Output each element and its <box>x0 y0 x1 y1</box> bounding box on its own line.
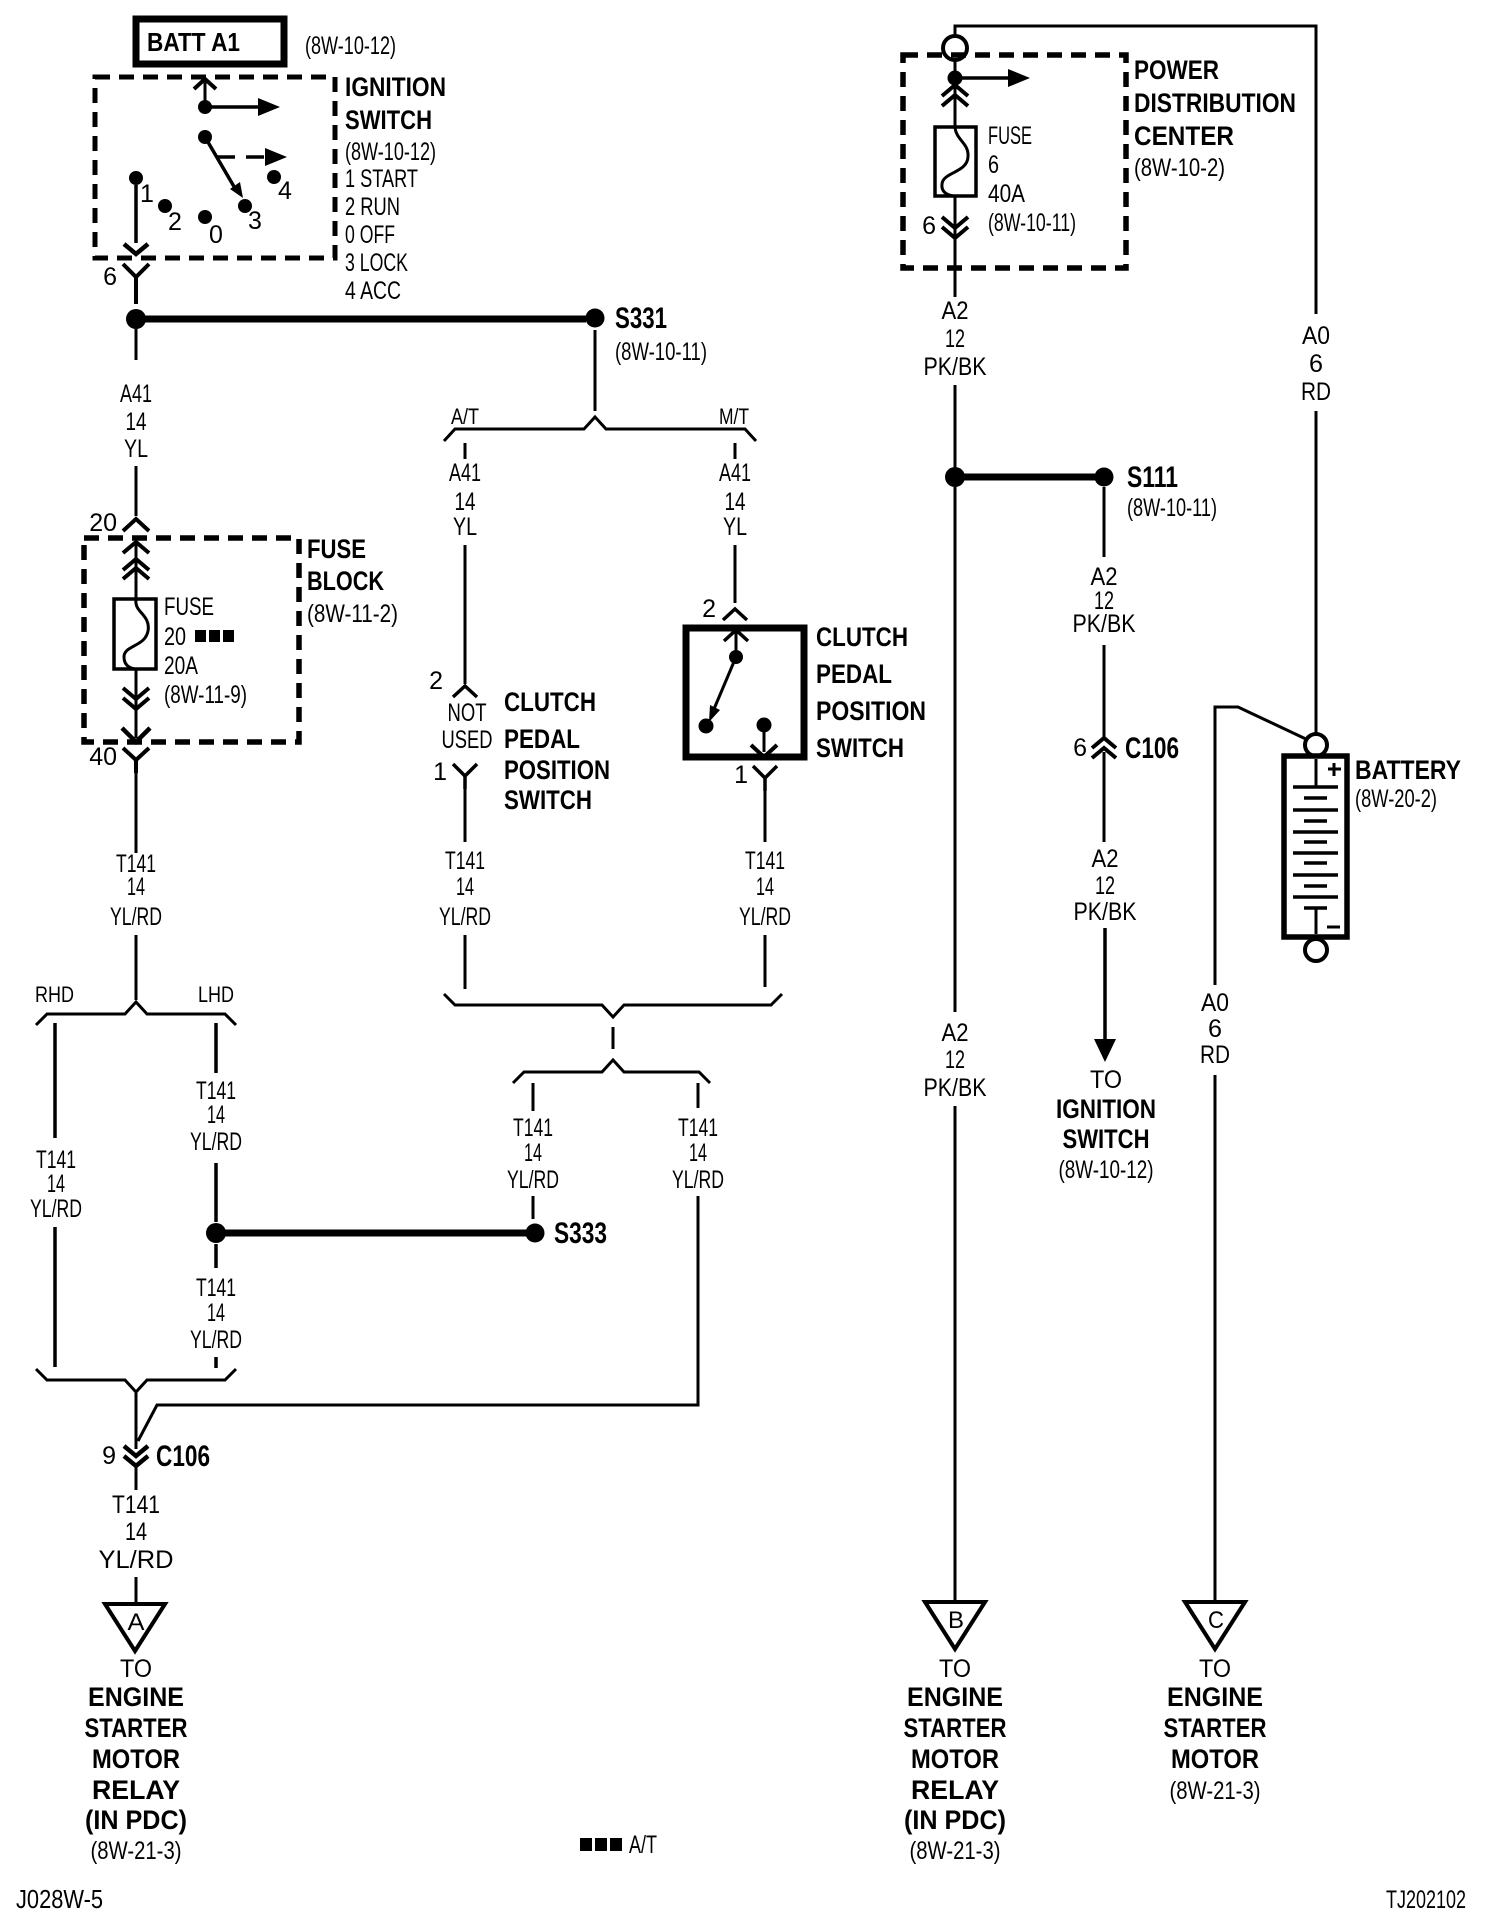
svg-text:0: 0 <box>209 221 223 249</box>
svg-text:14: 14 <box>524 1139 542 1167</box>
svg-text:PEDAL: PEDAL <box>816 659 892 689</box>
feeder wire from clutch switch branch into C106 <box>138 1196 698 1441</box>
off-page connector C <box>1185 1602 1245 1649</box>
ignition switch caption <box>345 72 446 305</box>
svg-text:(8W-21-3): (8W-21-3) <box>91 1837 182 1865</box>
svg-text:14: 14 <box>47 1170 65 1198</box>
svg-text:14: 14 <box>689 1139 707 1167</box>
svg-text:C106: C106 <box>1125 732 1179 765</box>
svg-text:BATT A1: BATT A1 <box>147 27 240 57</box>
svg-text:T141: T141 <box>513 1114 553 1142</box>
battery negative terminal <box>1305 939 1327 961</box>
ignition switch internal node (upper) <box>198 100 212 114</box>
svg-text:T141: T141 <box>112 1491 160 1519</box>
T141 pair split brace <box>513 1060 710 1083</box>
svg-text:A41: A41 <box>449 459 481 487</box>
svg-text:BLOCK: BLOCK <box>307 566 384 596</box>
ignition switch rotor contact arm (to position 3) <box>205 137 243 198</box>
svg-text:C: C <box>1208 1607 1224 1634</box>
svg-text:YL/RD: YL/RD <box>190 1128 242 1156</box>
wire T141 14 YL/RD (split to S333) <box>507 1083 559 1219</box>
wire T141 14 YL/RD M/T branch down <box>739 790 791 987</box>
splice S333 <box>526 1217 608 1250</box>
svg-text:A41: A41 <box>120 380 152 408</box>
svg-text:CLUTCH: CLUTCH <box>504 687 596 717</box>
svg-text:20A: 20A <box>164 652 198 680</box>
wire A41 14 YL M/T branch <box>719 443 751 603</box>
svg-text:(8W-10-12): (8W-10-12) <box>345 138 436 166</box>
svg-text:PEDAL: PEDAL <box>504 724 580 754</box>
svg-text:YL: YL <box>453 513 477 541</box>
svg-text:(8W-10-2): (8W-10-2) <box>1134 154 1225 182</box>
ignition switch internal node (lower) <box>198 130 212 144</box>
svg-text:FUSE: FUSE <box>307 534 366 564</box>
svg-text:MOTOR: MOTOR <box>911 1744 999 1774</box>
svg-text:12: 12 <box>1095 872 1115 900</box>
svg-text:LHD: LHD <box>198 982 234 1007</box>
connector pin 2 (M/T clutch switch) <box>702 595 747 623</box>
svg-text:(8W-11-9): (8W-11-9) <box>164 681 247 709</box>
svg-text:POWER: POWER <box>1134 55 1219 85</box>
sheet number TJ202102 <box>1386 1886 1466 1914</box>
svg-text:6: 6 <box>103 263 117 291</box>
wire between clutch merge and T141 split <box>612 1027 615 1049</box>
connector pin 6 (ignition switch output) <box>103 263 149 304</box>
clutch switch movable contact arm (M/T) <box>699 657 737 734</box>
clutch branches merge brace <box>444 994 782 1017</box>
wire (junction to splice S111) <box>955 474 1096 481</box>
svg-text:STARTER: STARTER <box>904 1713 1007 1743</box>
svg-text:STARTER: STARTER <box>85 1713 188 1743</box>
svg-text:C106: C106 <box>156 1440 210 1473</box>
svg-text:YL/RD: YL/RD <box>99 1546 174 1574</box>
arrow to ignition switch <box>1094 928 1116 1062</box>
svg-text:YL/RD: YL/RD <box>110 903 162 931</box>
svg-text:MOTOR: MOTOR <box>1171 1744 1259 1774</box>
wire A0 6 RD (battery positive to connector C) <box>1200 707 1308 1602</box>
connector C106 pin 9 <box>102 1440 210 1473</box>
svg-text:M/T: M/T <box>719 404 749 429</box>
svg-text:CENTER: CENTER <box>1134 121 1234 151</box>
wire label A0 6 RD (feed to battery positive) <box>1301 322 1331 406</box>
wire junction (A2 feed) <box>945 467 965 487</box>
svg-text:J028W-5: J028W-5 <box>16 1884 103 1914</box>
svg-text:SWITCH: SWITCH <box>1063 1124 1150 1154</box>
svg-text:ENGINE: ENGINE <box>907 1682 1003 1712</box>
svg-text:MOTOR: MOTOR <box>92 1744 180 1774</box>
clutch pedal position switch (M/T) box <box>686 628 804 757</box>
svg-text:(8W-21-3): (8W-21-3) <box>1170 1777 1261 1805</box>
ignition switch dashed travel arrow <box>217 148 287 166</box>
svg-text:1: 1 <box>734 761 748 789</box>
svg-text:T141: T141 <box>445 847 485 875</box>
svg-text:2: 2 <box>168 208 182 236</box>
svg-text:STARTER: STARTER <box>1164 1713 1267 1743</box>
svg-text:BATTERY: BATTERY <box>1355 755 1461 785</box>
svg-text:YL/RD: YL/RD <box>672 1166 724 1194</box>
wire (junction to splice S331) <box>136 316 586 323</box>
wire T141 14 YL/RD LHD branch (upper) <box>190 1023 242 1222</box>
wire (LHD junction to splice S333) <box>216 1230 527 1237</box>
battery caption BATTERY (8W-20-2) <box>1355 755 1461 813</box>
wire A41 14 YL (ignition switch to fuse block) <box>120 329 152 516</box>
svg-text:TO: TO <box>120 1655 152 1683</box>
svg-text:14: 14 <box>125 1518 147 1546</box>
svg-text:ENGINE: ENGINE <box>1167 1682 1263 1712</box>
svg-text:(8W-10-11): (8W-10-11) <box>615 338 707 366</box>
svg-text:14: 14 <box>756 873 774 901</box>
fuse block input arrow and connector chevrons <box>123 542 149 600</box>
svg-text:POSITION: POSITION <box>504 755 610 785</box>
caption CLUTCH PEDAL POSITION SWITCH (M/T) <box>816 622 926 763</box>
caption TO IGNITION SWITCH (8W-10-12) <box>1056 1066 1156 1184</box>
svg-text:PK/BK: PK/BK <box>1074 898 1137 926</box>
svg-text:2: 2 <box>702 595 716 623</box>
svg-text:S111: S111 <box>1127 461 1178 494</box>
connector pin 40 (fuse block output) <box>89 743 149 773</box>
ignition switch contact 4 <box>267 170 292 205</box>
ignition switch contact 3 <box>238 199 262 235</box>
svg-text:A/T: A/T <box>629 1831 657 1859</box>
PDC internal junction and feed arrow <box>948 60 1031 127</box>
power distribution center dashed outline <box>903 55 1126 268</box>
splice S111 <box>1095 461 1218 522</box>
wire (S331 down to A/T-M/T split) <box>594 330 597 411</box>
svg-text:PK/BK: PK/BK <box>924 1074 987 1102</box>
svg-text:NOT: NOT <box>448 699 487 727</box>
A/T / M/T split brace <box>444 404 756 441</box>
svg-text:TO: TO <box>1199 1655 1231 1683</box>
svg-text:A2: A2 <box>942 297 969 325</box>
svg-text:(IN PDC): (IN PDC) <box>904 1805 1006 1835</box>
svg-text:14: 14 <box>127 873 145 901</box>
svg-text:POSITION: POSITION <box>816 696 926 726</box>
wire junction below ignition switch <box>126 309 146 329</box>
caption TO ENGINE STARTER MOTOR (8W-21-3) [C] <box>1164 1655 1267 1805</box>
svg-text:YL: YL <box>124 435 148 463</box>
svg-text:T141: T141 <box>678 1114 718 1142</box>
svg-text:4: 4 <box>278 177 292 205</box>
svg-text:4 ACC: 4 ACC <box>345 277 401 305</box>
svg-text:6: 6 <box>1208 1015 1222 1043</box>
svg-text:IGNITION: IGNITION <box>1056 1094 1156 1124</box>
ignition switch contact 1 <box>129 171 154 208</box>
svg-text:A0: A0 <box>1201 989 1229 1017</box>
svg-text:1 START: 1 START <box>345 165 418 193</box>
svg-text:PK/BK: PK/BK <box>924 353 987 381</box>
sheet number J028W-5 <box>16 1884 103 1914</box>
fuse block dashed outline <box>84 538 299 742</box>
svg-text:(8W-10-12): (8W-10-12) <box>305 32 396 60</box>
PDC connector chevrons (top of fuse feed) <box>942 85 968 106</box>
svg-text:SWITCH: SWITCH <box>345 105 432 135</box>
battery feed terminal box BATT A1 <box>136 19 284 64</box>
RHD/LHD split brace <box>35 982 236 1025</box>
reference label (8W-10-12) for BATT A1 <box>305 32 396 60</box>
svg-text:USED: USED <box>442 726 493 754</box>
RHD/LHD merge brace <box>36 1369 236 1449</box>
svg-text:A41: A41 <box>719 459 751 487</box>
svg-text:SWITCH: SWITCH <box>504 785 592 815</box>
svg-text:A/T: A/T <box>451 404 479 429</box>
svg-text:9: 9 <box>102 1442 116 1470</box>
svg-text:RD: RD <box>1200 1041 1230 1069</box>
svg-text:(8W-10-11): (8W-10-11) <box>1127 494 1217 522</box>
wire A41 14 YL A/T branch <box>449 443 481 684</box>
svg-text:FUSE: FUSE <box>988 122 1032 150</box>
clutch switch input arrow and contact (M/T) <box>724 630 748 664</box>
svg-text:12: 12 <box>945 1046 965 1074</box>
svg-text:3: 3 <box>248 207 262 235</box>
svg-text:(8W-20-2): (8W-20-2) <box>1355 785 1437 813</box>
svg-text:CLUTCH: CLUTCH <box>816 622 908 652</box>
fuse F20 (20A) symbol <box>114 599 156 669</box>
svg-text:(8W-10-12): (8W-10-12) <box>1059 1156 1154 1184</box>
svg-text:1: 1 <box>433 758 447 786</box>
svg-text:YL/RD: YL/RD <box>439 903 491 931</box>
ignition switch output arm from contact 1 <box>124 185 148 254</box>
legend marker A/T <box>580 1831 657 1859</box>
connector pin 1 (A/T clutch switch) <box>433 758 477 789</box>
svg-text:ENGINE: ENGINE <box>88 1682 184 1712</box>
svg-text:2 RUN: 2 RUN <box>345 193 400 221</box>
fuse value label FUSE 20 20A (8W-11-9) <box>164 593 247 709</box>
svg-text:PK/BK: PK/BK <box>1073 610 1136 638</box>
svg-text:1: 1 <box>140 180 154 208</box>
svg-text:40: 40 <box>89 743 117 771</box>
svg-text:IGNITION: IGNITION <box>345 72 446 102</box>
connector pin 1 (M/T clutch switch) <box>734 761 777 791</box>
svg-text:A2: A2 <box>942 1019 969 1047</box>
wire T141 14 YL/RD (C106 to starter relay) <box>99 1466 174 1604</box>
clutch switch output contact (M/T) <box>751 718 777 758</box>
svg-text:YL/RD: YL/RD <box>507 1166 559 1194</box>
svg-text:3 LOCK: 3 LOCK <box>345 249 408 277</box>
wire A2 12 PK/BK (S111 to C106) <box>1073 487 1136 737</box>
caption TO ENGINE STARTER MOTOR RELAY (IN PDC) (8W-21-3) [B] <box>904 1655 1007 1865</box>
svg-text:T141: T141 <box>196 1274 236 1302</box>
svg-text:6: 6 <box>922 212 936 240</box>
fuse F6 (40A) symbol <box>935 127 976 196</box>
connector pin 2 NOT USED (A/T clutch switch) <box>429 667 477 697</box>
svg-text:6: 6 <box>1073 734 1087 762</box>
battery positive terminal <box>1305 734 1327 756</box>
junction on LHD branch (to S333) <box>206 1223 226 1243</box>
wire T141 14 YL/RD LHD branch (lower) <box>190 1244 242 1368</box>
svg-text:YL: YL <box>723 513 747 541</box>
svg-text:B: B <box>948 1607 964 1634</box>
svg-text:(8W-21-3): (8W-21-3) <box>910 1837 1001 1865</box>
svg-text:FUSE: FUSE <box>164 593 214 621</box>
svg-text:YL/RD: YL/RD <box>190 1326 242 1354</box>
PDC pin 6 connector (bottom) <box>922 196 968 297</box>
wire T141 14 YL/RD (split to C106 feeder) <box>672 1083 724 1194</box>
svg-text:(IN PDC): (IN PDC) <box>85 1805 187 1835</box>
off-page connector B <box>925 1602 985 1649</box>
svg-text:A0: A0 <box>1302 322 1330 350</box>
ignition switch wiper arrow (up) <box>194 79 216 107</box>
svg-text:2: 2 <box>429 667 443 695</box>
ignition switch contact 2 <box>158 199 182 236</box>
fuse block caption <box>307 534 398 628</box>
svg-text:RELAY: RELAY <box>911 1775 999 1805</box>
ignition switch contact 0 <box>198 210 223 249</box>
svg-text:14: 14 <box>126 408 147 436</box>
off-page connector A <box>105 1604 165 1651</box>
svg-text:T141: T141 <box>745 847 785 875</box>
svg-text:YL/RD: YL/RD <box>739 903 791 931</box>
connector C106 pin 6 <box>1073 732 1179 765</box>
svg-text:14: 14 <box>207 1101 225 1129</box>
svg-text:0 OFF: 0 OFF <box>345 221 395 249</box>
svg-text:(8W-11-2): (8W-11-2) <box>307 600 398 628</box>
wire T141 14 YL/RD A/T branch down <box>439 788 491 989</box>
wire T141 14 YL/RD RHD branch <box>30 1023 82 1367</box>
wire T141 14 YL/RD (fuse block to RHD/LHD split) <box>110 772 162 1000</box>
PDC caption <box>1134 55 1296 182</box>
svg-text:DISTRIBUTION: DISTRIBUTION <box>1134 88 1296 118</box>
wire A2 12 PK/BK (PDC to junction) <box>924 297 987 468</box>
svg-text:14: 14 <box>207 1299 225 1327</box>
svg-text:12: 12 <box>945 325 965 353</box>
svg-text:6: 6 <box>1309 350 1323 378</box>
svg-text:6: 6 <box>988 151 999 179</box>
wire A2 12 PK/BK (C106 to ignition switch) <box>1074 752 1137 926</box>
svg-text:RELAY: RELAY <box>92 1775 180 1805</box>
svg-text:20: 20 <box>164 623 186 651</box>
svg-text:TO: TO <box>1090 1066 1122 1094</box>
fuse block output chevrons and arrow <box>122 669 150 742</box>
svg-text:SWITCH: SWITCH <box>816 733 904 763</box>
wire A2 12 PK/BK (junction to connector B) <box>924 487 987 1602</box>
svg-text:A2: A2 <box>1092 845 1119 873</box>
svg-text:TJ202102: TJ202102 <box>1386 1886 1466 1914</box>
PDC battery terminal eyelet <box>943 36 967 60</box>
svg-text:RHD: RHD <box>35 982 74 1007</box>
connector pin 20 (fuse block input) <box>89 509 149 537</box>
svg-text:S333: S333 <box>554 1217 607 1250</box>
fuse value label FUSE 6 40A (8W-10-11) <box>988 122 1076 237</box>
power feed line (PDC to battery positive) <box>955 26 1316 734</box>
svg-text:(8W-10-11): (8W-10-11) <box>988 209 1076 237</box>
ignition switch feed arrow (solid right) <box>205 98 280 116</box>
svg-text:20: 20 <box>89 509 117 537</box>
svg-text:YL/RD: YL/RD <box>30 1195 82 1223</box>
ignition switch SW1 dashed outline <box>95 77 335 258</box>
svg-text:40A: 40A <box>988 180 1025 208</box>
splice S331 <box>586 302 708 366</box>
svg-text:RD: RD <box>1301 378 1331 406</box>
svg-text:14: 14 <box>725 488 746 516</box>
svg-text:TO: TO <box>939 1655 971 1683</box>
svg-text:A: A <box>128 1609 145 1636</box>
svg-text:14: 14 <box>456 873 474 901</box>
svg-text:14: 14 <box>455 488 476 516</box>
caption CLUTCH PEDAL POSITION SWITCH (A/T) <box>504 687 610 815</box>
caption NOT USED <box>442 699 493 754</box>
svg-text:S331: S331 <box>615 302 667 335</box>
caption TO ENGINE STARTER MOTOR RELAY (IN PDC) (8W-21-3) [A] <box>85 1655 188 1865</box>
battery BT1 <box>1284 756 1347 937</box>
